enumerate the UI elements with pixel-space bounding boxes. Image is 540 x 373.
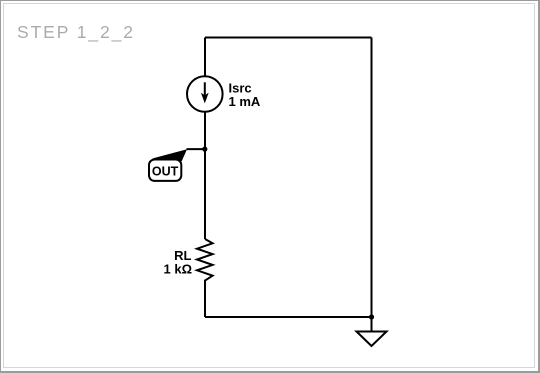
svg-text:1 mA: 1 mA: [229, 94, 261, 109]
svg-text:1 kΩ: 1 kΩ: [164, 261, 193, 276]
svg-text:STEP 1_2_2: STEP 1_2_2: [17, 22, 135, 43]
svg-text:OUT: OUT: [152, 164, 179, 178]
